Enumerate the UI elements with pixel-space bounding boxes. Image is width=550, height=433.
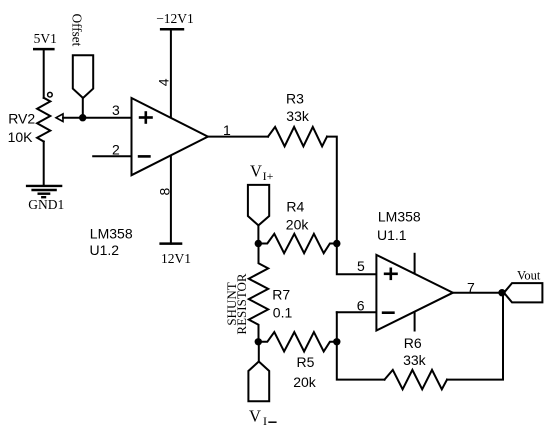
- svg-text:R6: R6: [404, 335, 422, 351]
- svg-text:33k: 33k: [403, 352, 427, 368]
- svg-text:5: 5: [357, 258, 365, 274]
- svg-text:I+: I+: [263, 169, 274, 183]
- svg-text:Offset: Offset: [70, 14, 85, 47]
- svg-text:U1.1: U1.1: [377, 227, 407, 243]
- svg-text:R7: R7: [272, 287, 290, 303]
- svg-text:33k: 33k: [286, 108, 310, 124]
- svg-text:−12V1: −12V1: [156, 11, 194, 26]
- svg-text:0.1: 0.1: [273, 305, 293, 321]
- svg-text:12V1: 12V1: [161, 251, 191, 266]
- svg-text:I: I: [263, 414, 267, 428]
- svg-text:5V1: 5V1: [34, 31, 57, 46]
- svg-text:U1.2: U1.2: [90, 242, 120, 258]
- svg-text:LM358: LM358: [378, 209, 421, 225]
- svg-text:20k: 20k: [293, 374, 317, 390]
- svg-text:4: 4: [155, 78, 171, 86]
- svg-text:Vout: Vout: [517, 268, 541, 282]
- svg-text:R4: R4: [286, 199, 304, 215]
- svg-text:2: 2: [112, 141, 120, 157]
- svg-text:R3: R3: [286, 91, 304, 107]
- svg-text:10K: 10K: [8, 129, 34, 145]
- svg-text:7: 7: [467, 280, 475, 296]
- svg-text:LM358: LM358: [90, 226, 133, 242]
- svg-text:R5: R5: [297, 354, 315, 370]
- svg-text:6: 6: [357, 297, 365, 313]
- svg-text:RV2: RV2: [8, 111, 35, 127]
- svg-text:RESISTOR: RESISTOR: [234, 273, 249, 334]
- svg-text:20k: 20k: [286, 217, 310, 233]
- svg-text:V: V: [249, 407, 261, 426]
- svg-text:8: 8: [157, 188, 173, 196]
- svg-text:V: V: [250, 162, 262, 181]
- svg-text:GND1: GND1: [28, 197, 64, 212]
- svg-text:3: 3: [112, 102, 120, 118]
- svg-text:1: 1: [223, 122, 231, 138]
